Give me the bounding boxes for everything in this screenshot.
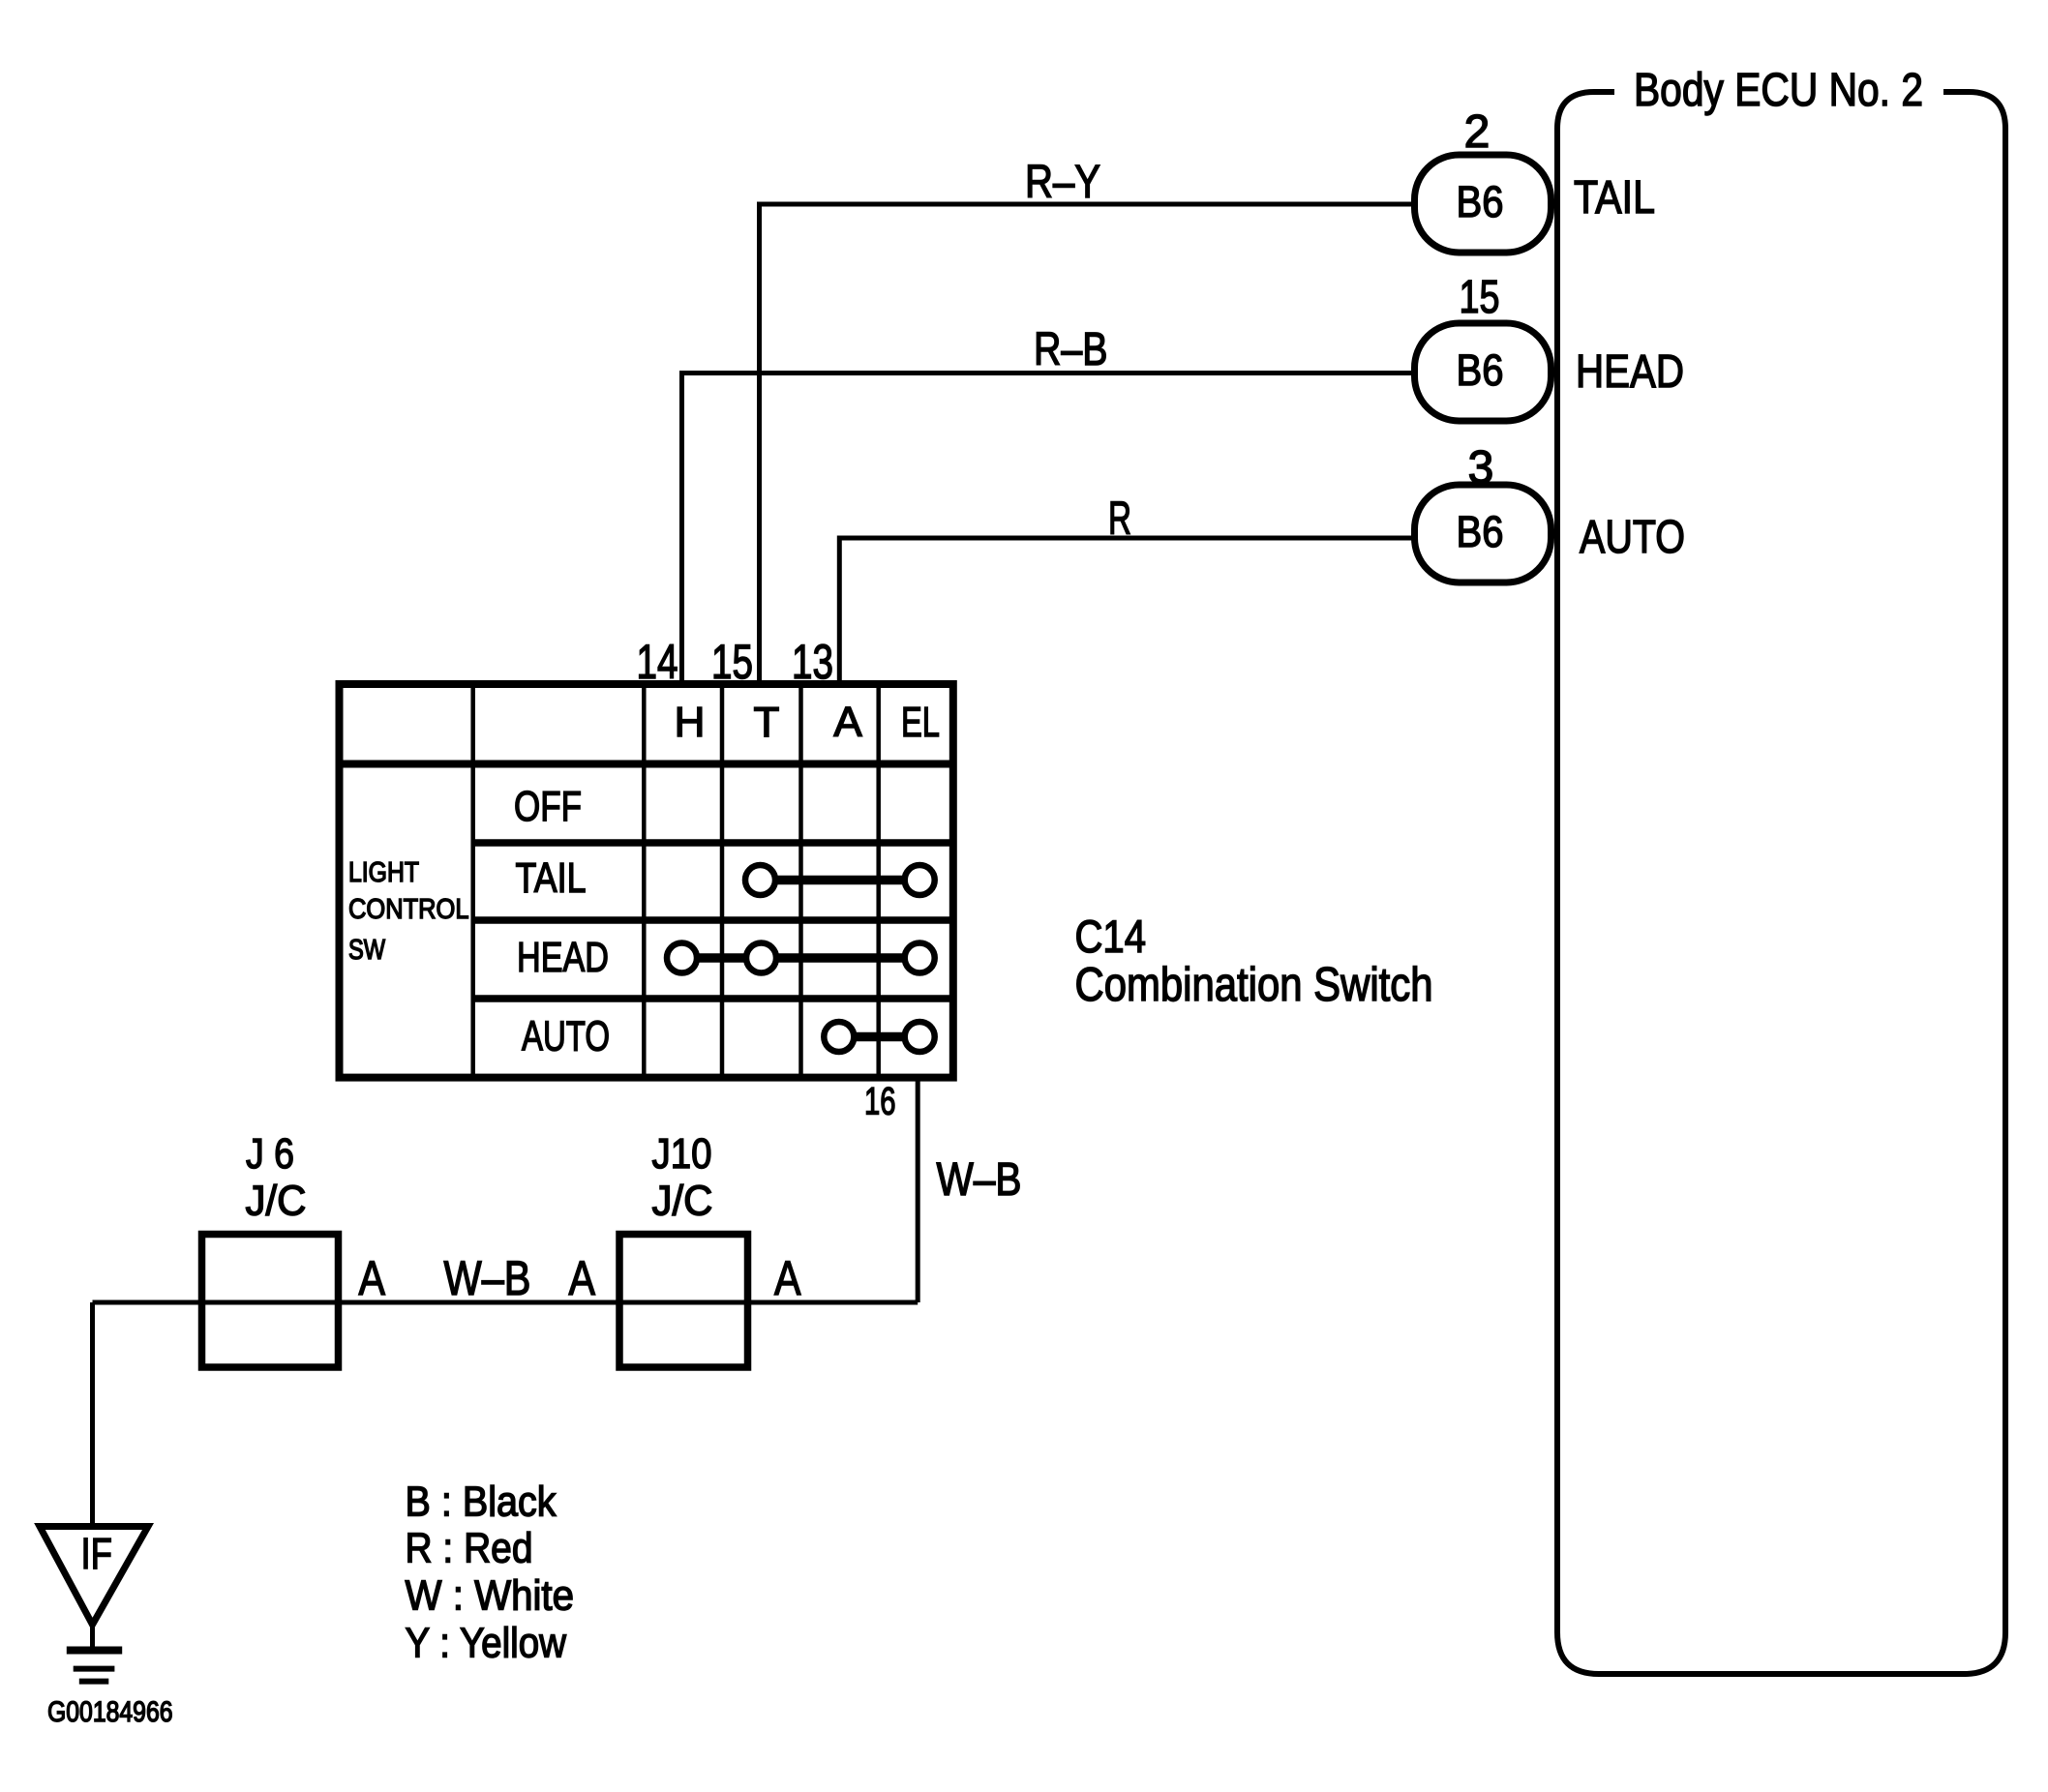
- contact bar TAIL row T-EL: [761, 876, 920, 885]
- svg-text:SW: SW: [348, 935, 386, 966]
- ground bar 3: [79, 1679, 109, 1685]
- table row divider HEAD/AUTO: [473, 995, 953, 1002]
- svg-text:B : Black: B : Black: [406, 1478, 557, 1526]
- svg-text:T: T: [754, 699, 780, 746]
- svg-text:W–B: W–B: [444, 1251, 531, 1305]
- svg-text:R: R: [1108, 493, 1131, 545]
- svg-text:Body ECU No. 2: Body ECU No. 2: [1634, 65, 1923, 116]
- table column divider 1: [470, 684, 475, 1078]
- svg-text:J 6: J 6: [246, 1130, 294, 1178]
- svg-text:15: 15: [1460, 272, 1500, 323]
- table column divider 4: [798, 684, 803, 1078]
- svg-text:R : Red: R : Red: [406, 1525, 533, 1572]
- svg-text:EL: EL: [901, 699, 940, 746]
- switch C14 table outer border: [340, 684, 953, 1078]
- svg-text:B6: B6: [1457, 177, 1504, 226]
- contact bar HEAD row H-T-EL: [682, 953, 920, 963]
- svg-text:A: A: [774, 1251, 801, 1305]
- svg-text:Y : Yellow: Y : Yellow: [406, 1620, 567, 1667]
- wire W-B from switch pin 16 down: [916, 1081, 920, 1302]
- svg-text:W–B: W–B: [937, 1154, 1022, 1206]
- svg-text:J10: J10: [652, 1130, 712, 1178]
- svg-text:CONTROL: CONTROL: [348, 894, 469, 925]
- svg-text:IF: IF: [81, 1529, 113, 1578]
- svg-text:C14: C14: [1075, 911, 1147, 962]
- svg-text:3: 3: [1468, 442, 1494, 493]
- svg-text:AUTO: AUTO: [522, 1013, 610, 1060]
- svg-text:TAIL: TAIL: [516, 854, 587, 902]
- svg-text:2: 2: [1464, 106, 1491, 158]
- contact circle HEAD/H: [667, 943, 697, 973]
- contact circle TAIL/EL: [905, 865, 935, 895]
- svg-text:A: A: [833, 699, 862, 746]
- ECU box outline (Body ECU No. 2): [1557, 92, 2005, 1674]
- svg-text:J/C: J/C: [652, 1178, 713, 1225]
- connector B6 oval pin 2 (TAIL): [1415, 155, 1551, 253]
- wire W-B ground bus horizontal: [93, 1300, 919, 1305]
- junction connector J6 box: [202, 1235, 339, 1368]
- contact bar AUTO row A-EL: [839, 1032, 919, 1042]
- connector B6 oval pin 15 (HEAD): [1415, 323, 1551, 421]
- contact circle TAIL/T: [745, 865, 775, 895]
- contact circle AUTO/A: [824, 1022, 854, 1052]
- svg-text:HEAD: HEAD: [1576, 346, 1684, 398]
- svg-text:OFF: OFF: [514, 783, 582, 830]
- svg-text:Combination Switch: Combination Switch: [1075, 959, 1433, 1011]
- contact circle HEAD/T: [746, 943, 776, 973]
- ground bar 1: [67, 1647, 122, 1655]
- svg-text:A: A: [569, 1251, 596, 1305]
- svg-text:LIGHT: LIGHT: [348, 857, 419, 888]
- ground bar 2: [74, 1666, 115, 1672]
- svg-text:B6: B6: [1457, 507, 1504, 556]
- svg-text:TAIL: TAIL: [1574, 172, 1655, 224]
- svg-text:16: 16: [864, 1081, 896, 1123]
- ground stub: [90, 1625, 95, 1647]
- wire R-B from switch pin 14 to ECU HEAD: [682, 373, 1414, 687]
- svg-text:R–B: R–B: [1034, 324, 1108, 375]
- wire R from switch pin 13 to ECU AUTO: [839, 538, 1413, 686]
- svg-text:W : White: W : White: [406, 1572, 575, 1620]
- table header underline: [340, 761, 953, 768]
- svg-text:R–Y: R–Y: [1025, 157, 1100, 208]
- svg-text:J/C: J/C: [246, 1178, 307, 1225]
- table column divider 2: [642, 684, 647, 1078]
- svg-text:A: A: [359, 1251, 386, 1305]
- svg-text:H: H: [675, 699, 706, 746]
- svg-text:AUTO: AUTO: [1580, 512, 1685, 563]
- wire R-Y from switch pin 15 to ECU TAIL: [760, 204, 1414, 686]
- ground symbol IF triangle: [40, 1527, 148, 1626]
- contact circle AUTO/EL: [905, 1022, 935, 1052]
- svg-text:HEAD: HEAD: [517, 934, 609, 981]
- table row divider OFF/TAIL: [473, 839, 953, 847]
- table column divider 5: [876, 684, 881, 1078]
- connector B6 oval pin 3 (AUTO): [1415, 485, 1551, 582]
- wire ground drop vertical: [90, 1302, 95, 1526]
- junction connector J10 box: [619, 1235, 748, 1368]
- table row divider TAIL/HEAD: [473, 916, 953, 924]
- svg-text:G00184966: G00184966: [47, 1696, 173, 1728]
- svg-text:B6: B6: [1457, 345, 1504, 395]
- contact circle HEAD/EL: [905, 943, 935, 973]
- table column divider 3: [720, 684, 725, 1078]
